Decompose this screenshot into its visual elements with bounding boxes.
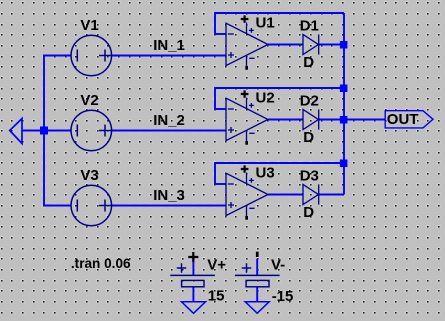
svg-text:V1: V1 [80,17,98,34]
svg-text:15: 15 [208,288,225,305]
svg-text:-15: -15 [272,288,294,305]
svg-text:D2: D2 [300,92,319,109]
svg-text:D: D [303,54,314,71]
svg-text:U3: U3 [256,164,275,181]
svg-text:D: D [303,204,314,221]
svg-text:.tran 0.06: .tran 0.06 [71,256,131,271]
svg-text:V2: V2 [80,92,98,109]
svg-text:V3: V3 [80,167,98,184]
svg-text:D1: D1 [300,17,319,34]
svg-text:IN_3: IN_3 [153,187,185,204]
svg-text:IN_1: IN_1 [153,37,185,54]
svg-text:U2: U2 [256,89,275,106]
svg-text:V+: V+ [207,257,226,274]
svg-text:IN_2: IN_2 [153,112,185,129]
svg-text:D: D [303,129,314,146]
svg-text:V-: V- [271,257,285,274]
svg-text:U1: U1 [256,14,275,31]
svg-text:D3: D3 [300,167,319,184]
svg-text:OUT: OUT [387,111,419,128]
